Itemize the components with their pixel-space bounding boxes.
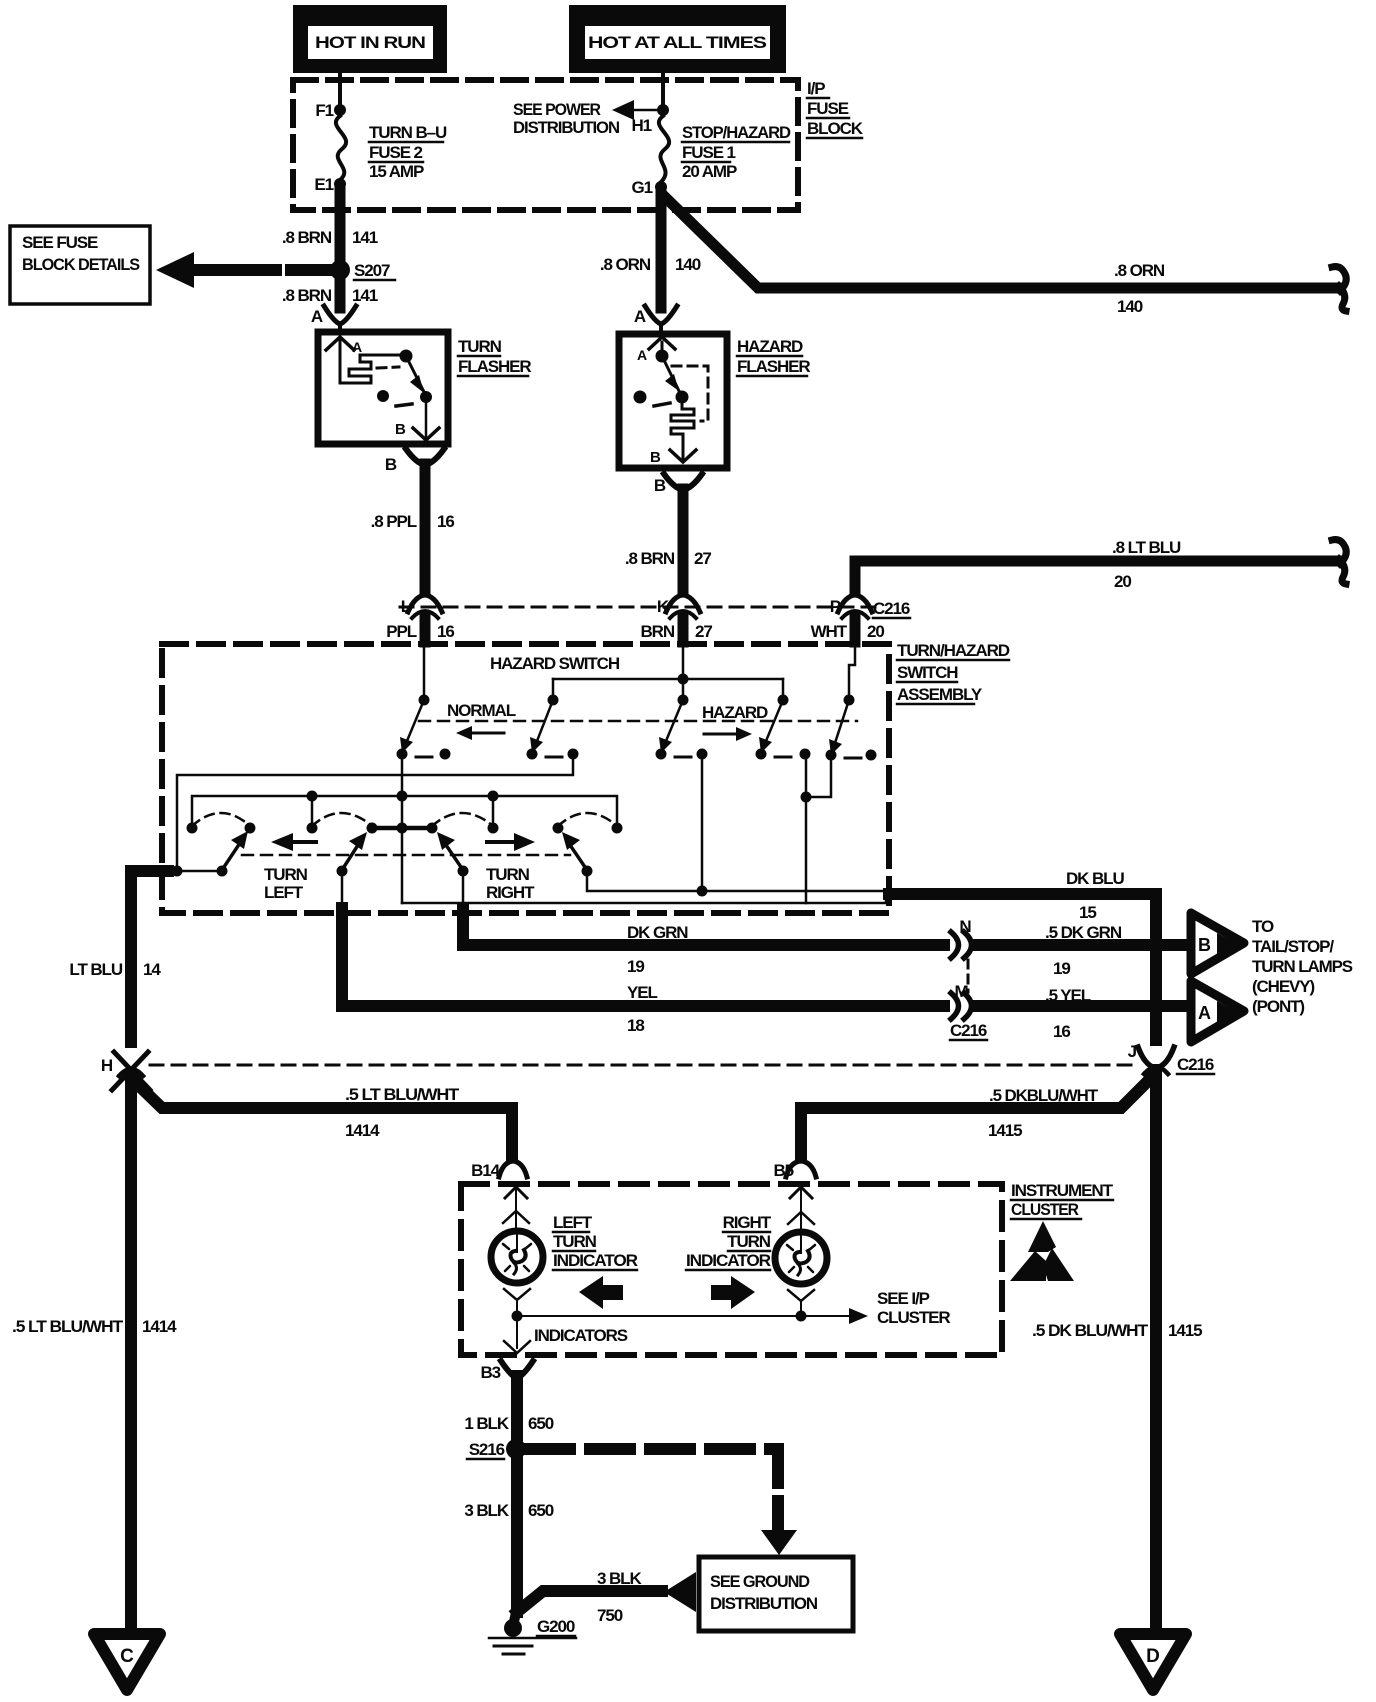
svg-text:SWITCH: SWITCH (897, 663, 958, 682)
wire YEL 18 left segment (342, 871, 950, 1035)
connector M (950, 982, 978, 1019)
svg-text:750: 750 (597, 1606, 623, 1625)
splice S207 (330, 260, 350, 280)
svg-text:SEE FUSE: SEE FUSE (22, 233, 98, 252)
right indicator thick arrow (711, 1276, 755, 1309)
svg-text:.5 LT BLU/WHT: .5 LT BLU/WHT (12, 1317, 124, 1336)
hazard switch blade 5 (829, 700, 849, 755)
svg-text:141: 141 (352, 286, 378, 305)
svg-text:FLASHER: FLASHER (458, 357, 531, 376)
svg-text:C216: C216 (873, 599, 910, 618)
bus drop left (552, 679, 555, 697)
wire .5 LT BLU/WHT 1414 to C (12, 1078, 177, 1630)
left indicator thick arrow (579, 1276, 623, 1309)
turn left thick arrow (284, 840, 316, 844)
connector L (401, 595, 442, 618)
turn blade 2 (342, 832, 367, 870)
svg-text:.5 YEL: .5 YEL (1045, 986, 1091, 1005)
svg-text:DK BLU: DK BLU (1066, 869, 1124, 888)
turn flasher box (318, 332, 448, 444)
label TURN FLASHER (458, 337, 531, 376)
svg-text:YEL: YEL (627, 983, 657, 1002)
dashed arc 4 (558, 813, 617, 826)
label RIGHT TURN INDICATOR (686, 1213, 772, 1270)
turn right arrow (487, 833, 535, 851)
svg-text:INDICATORS: INDICATORS (534, 1326, 628, 1345)
label TURN LEFT (264, 865, 308, 902)
svg-text:B: B (1198, 935, 1211, 955)
svg-text:SEE I/P: SEE I/P (877, 1289, 930, 1308)
dashed arrow wire to see fuse block details (156, 252, 330, 288)
wire .8 ORN 140 down from G1 (656, 193, 667, 308)
svg-text:B: B (385, 455, 397, 474)
svg-text:1414: 1414 (345, 1121, 380, 1140)
connector H (101, 1048, 150, 1090)
svg-text:1 BLK: 1 BLK (464, 1414, 509, 1433)
label C216 at J (1177, 1055, 1214, 1074)
svg-text:SEE POWER: SEE POWER (513, 100, 601, 119)
wire 3 BLK 650 (464, 1457, 553, 1612)
hazard switch blade 1 (400, 700, 424, 753)
svg-text:INDICATOR: INDICATOR (686, 1251, 771, 1270)
svg-text:16: 16 (437, 512, 454, 531)
svg-text:CLUSTER: CLUSTER (877, 1308, 950, 1327)
svg-text:S207: S207 (354, 261, 390, 280)
svg-text:BLOCK: BLOCK (807, 119, 864, 138)
rail junction dots (307, 791, 318, 802)
C216 dashed link between N and M (967, 960, 970, 992)
wire .5 DK GRN 19 right segment (976, 923, 1186, 978)
connector row C216 dashed line (400, 606, 875, 609)
svg-text:TURN B–U: TURN B–U (369, 123, 447, 142)
off-page triangle D (1120, 1634, 1186, 1690)
svg-text:CLUSTER: CLUSTER (1011, 1200, 1079, 1219)
svg-text:HAZARD SWITCH: HAZARD SWITCH (490, 654, 620, 673)
svg-text:FUSE 2: FUSE 2 (369, 143, 423, 162)
bus drop right (782, 679, 785, 697)
hazard flasher internals (634, 337, 709, 466)
svg-text:.8 ORN: .8 ORN (600, 255, 651, 274)
label LEFT TURN INDICATOR (553, 1213, 638, 1270)
dashed arc 3 (432, 813, 493, 826)
wire from HOT IN RUN to F1 (338, 73, 342, 106)
svg-text:16: 16 (1053, 1022, 1070, 1041)
turn switch top rail (192, 796, 617, 826)
power box HOT IN RUN (293, 5, 447, 73)
wire LT BLU 14 (69, 871, 168, 1050)
left turn indicator lamp (491, 1231, 543, 1283)
I/P fuse block dashed box (293, 80, 798, 210)
instrument cluster dashed box (461, 1184, 1002, 1355)
rail stub at 493 (492, 796, 495, 826)
svg-text:TAIL/STOP/: TAIL/STOP/ (1252, 937, 1334, 956)
fuse TURN B-U FUSE 2 15 AMP (336, 116, 346, 180)
svg-text:27: 27 (695, 622, 712, 641)
connector J (1128, 1042, 1174, 1074)
svg-text:A: A (311, 307, 323, 326)
svg-text:INDICATOR: INDICATOR (553, 1251, 638, 1270)
terminal F1 (334, 104, 346, 116)
wire WHT into contact (849, 642, 855, 697)
svg-text:HOT AT ALL TIMES: HOT AT ALL TIMES (588, 33, 767, 52)
svg-text:.5 DKBLU/WHT: .5 DKBLU/WHT (989, 1086, 1099, 1105)
wire from HOT AT ALL TIMES to H1 (661, 73, 665, 106)
dashed arc 1 (192, 813, 250, 826)
svg-text:.5 DK BLU/WHT: .5 DK BLU/WHT (1032, 1321, 1149, 1340)
svg-text:.5 LT BLU/WHT: .5 LT BLU/WHT (345, 1085, 460, 1104)
svg-text:DK GRN: DK GRN (627, 923, 688, 942)
svg-text:LT BLU: LT BLU (69, 960, 122, 979)
dashed arc 2 (312, 813, 372, 826)
svg-text:TURN LAMPS: TURN LAMPS (1252, 957, 1353, 976)
svg-text:ASSEMBLY: ASSEMBLY (897, 685, 983, 704)
hazard switch blade 2 (530, 700, 553, 753)
label TURN/HAZARD SWITCH ASSEMBLY (897, 641, 1010, 704)
svg-text:E1: E1 (314, 175, 333, 194)
connector P (830, 595, 872, 618)
fuse STOP/HAZARD FUSE 1 20 AMP (659, 116, 669, 182)
svg-text:650: 650 (528, 1501, 554, 1520)
wire .5 LT BLU/WHT 1414 to B14 (131, 1078, 512, 1157)
arrow into see ground distribution box (761, 1530, 797, 1555)
wire DK GRN 19 left segment (463, 871, 950, 976)
hazard detent dashed line (419, 720, 857, 723)
svg-text:H1: H1 (631, 116, 651, 135)
svg-text:.8 LT BLU: .8 LT BLU (1112, 538, 1181, 557)
svg-text:TO: TO (1252, 917, 1274, 936)
hook end of .8 ORN wire (1332, 267, 1346, 311)
hazard feed column left (701, 754, 704, 891)
svg-text:BLOCK DETAILS: BLOCK DETAILS (22, 255, 140, 274)
note box SEE GROUND DISTRIBUTION (699, 1557, 853, 1631)
svg-text:3 BLK: 3 BLK (464, 1501, 509, 1520)
svg-text:.8 PPL: .8 PPL (371, 512, 417, 531)
terminal E1 (334, 178, 346, 190)
svg-text:C216: C216 (1177, 1055, 1214, 1074)
note box SEE FUSE BLOCK DETAILS (10, 226, 150, 304)
power box HOT AT ALL TIMES (569, 5, 786, 73)
svg-text:FUSE 1: FUSE 1 (682, 143, 736, 162)
svg-text:D: D (1146, 1646, 1160, 1667)
off-page triangle C (94, 1634, 160, 1690)
svg-text:WHT: WHT (811, 622, 848, 641)
svg-text:HOT IN RUN: HOT IN RUN (315, 33, 426, 52)
wire .5 YEL 16 right segment (976, 986, 1186, 1041)
wire stub PPL 16 into switch box (420, 617, 431, 642)
connector B of turn flasher (385, 449, 444, 474)
svg-text:19: 19 (627, 957, 644, 976)
svg-text:TURN: TURN (458, 337, 502, 356)
svg-text:J: J (1128, 1042, 1137, 1061)
lamp bottom chevrons (504, 1289, 530, 1300)
svg-text:C216: C216 (950, 1021, 987, 1040)
svg-text:C: C (120, 1646, 134, 1667)
turn flasher internals (326, 337, 439, 440)
connector B of hazard flasher (654, 474, 702, 495)
svg-text:RIGHT: RIGHT (723, 1213, 772, 1232)
wire stub WHT 20 into switch box (850, 617, 861, 642)
feed line from normal contact (177, 758, 573, 866)
turn blade 3 (437, 832, 463, 870)
terminal H1 (657, 104, 669, 116)
svg-text:A: A (352, 339, 362, 355)
svg-text:1415: 1415 (1168, 1321, 1202, 1340)
svg-text:A: A (634, 307, 646, 326)
rail stub at 312 (311, 796, 314, 826)
svg-text:18: 18 (627, 1016, 644, 1035)
connector K (657, 595, 700, 618)
svg-text:(CHEVY): (CHEVY) (1252, 977, 1314, 996)
C216 long dashed line (150, 1064, 1140, 1067)
connector N (950, 917, 978, 958)
label INSTRUMENT CLUSTER (1011, 1181, 1114, 1219)
hazard flasher box (619, 334, 727, 468)
wire BRN into bus (682, 642, 685, 697)
turn blade 4 (562, 832, 587, 870)
svg-text:A: A (1198, 1003, 1211, 1023)
svg-text:TURN: TURN (727, 1232, 771, 1251)
wire .5 DKBLU/WHT 1415 to B5 (801, 1077, 1152, 1157)
svg-text:HAZARD: HAZARD (702, 703, 768, 722)
svg-text:DISTRIBUTION: DISTRIBUTION (513, 118, 620, 137)
label C216 at connector row (873, 599, 910, 618)
svg-text:RIGHT: RIGHT (486, 883, 535, 902)
wire 1 BLK 650 (464, 1376, 553, 1441)
connector B3 (480, 1361, 533, 1382)
off-page triangle B (1191, 913, 1244, 974)
svg-text:FUSE: FUSE (807, 99, 849, 118)
svg-text:LEFT: LEFT (264, 883, 304, 902)
svg-text:DISTRIBUTION: DISTRIBUTION (710, 1594, 818, 1613)
output line to DK BLU upper (587, 871, 888, 891)
svg-text:NORMAL: NORMAL (447, 701, 516, 720)
center bar (372, 826, 431, 831)
connector A of hazard flasher (634, 306, 677, 332)
svg-text:TURN: TURN (486, 865, 530, 884)
turn/hazard switch assembly dashed box (162, 644, 889, 913)
turn lower pivots (172, 866, 183, 877)
splice S216 (467, 1439, 526, 1459)
center column (401, 754, 404, 903)
svg-text:INSTRUMENT: INSTRUMENT (1011, 1181, 1114, 1200)
wire .8 BRN 141 lower segment (335, 274, 346, 308)
svg-text:.5 DK GRN: .5 DK GRN (1045, 923, 1122, 942)
svg-text:20: 20 (867, 622, 884, 641)
svg-text:20: 20 (1114, 572, 1131, 591)
right lamp feed with arrow (788, 1187, 814, 1232)
wire DK BLU 15 (889, 869, 1156, 1048)
svg-text:H: H (101, 1056, 113, 1075)
svg-text:TURN: TURN (553, 1232, 597, 1251)
svg-text:TURN: TURN (264, 865, 308, 884)
hazard switch blade 4 (759, 700, 783, 753)
label I/P FUSE BLOCK (807, 79, 864, 138)
arrow into ground distribution box left (664, 1572, 696, 1612)
wire .8 BRN 141 upper segment (335, 190, 346, 266)
connector B14 (471, 1161, 527, 1180)
label TURN RIGHT (486, 865, 535, 902)
svg-text:B: B (395, 421, 406, 438)
turn detent dashed line (242, 854, 570, 857)
svg-text:(PONT): (PONT) (1252, 997, 1304, 1016)
svg-text:.8 BRN: .8 BRN (625, 549, 675, 568)
turn blade 1 (222, 831, 248, 870)
wire .8 BRN 27 (678, 489, 689, 591)
svg-text:3 BLK: 3 BLK (597, 1569, 642, 1588)
svg-text:G200: G200 (537, 1617, 575, 1636)
turn switch contact dots row (187, 823, 198, 834)
svg-text:14: 14 (143, 960, 161, 979)
svg-text:G1: G1 (632, 178, 653, 197)
svg-text:.8 ORN: .8 ORN (1114, 261, 1165, 280)
svg-text:1415: 1415 (988, 1121, 1022, 1140)
svg-text:S216: S216 (469, 1440, 505, 1459)
svg-text:.8 BRN: .8 BRN (282, 286, 332, 305)
label TO TAIL/STOP/TURN LAMPS (1252, 917, 1353, 1016)
svg-text:15 AMP: 15 AMP (369, 162, 424, 181)
svg-text:SEE GROUND: SEE GROUND (710, 1572, 810, 1591)
see I/P cluster arrow (801, 1289, 950, 1327)
svg-text:HAZARD: HAZARD (737, 337, 803, 356)
hazard switch blade 3 (659, 700, 683, 753)
dashed wire from S216 to ground distribution (530, 1449, 778, 1526)
ESD symbol (1010, 1221, 1074, 1281)
label NORMAL with arrow (447, 701, 516, 740)
off-page triangle A (1191, 981, 1244, 1042)
wire 3 BLK 750 (517, 1569, 662, 1625)
svg-text:.8 BRN: .8 BRN (282, 228, 332, 247)
svg-text:B: B (650, 449, 661, 466)
svg-text:FLASHER: FLASHER (737, 357, 810, 376)
ground G200 (489, 1608, 576, 1654)
svg-text:140: 140 (1117, 297, 1143, 316)
svg-text:650: 650 (528, 1414, 554, 1433)
hazard feed column right with step (806, 755, 831, 797)
wire .8 LT BLU 20 (855, 538, 1340, 591)
wire .8 ORN 140 branch to right (664, 196, 1340, 316)
hazard switch lower contacts (397, 749, 408, 760)
svg-text:B14: B14 (471, 1161, 501, 1180)
see power distribution arrow (513, 100, 657, 137)
wire .8 PPL 16 (420, 464, 431, 591)
svg-text:STOP/HAZARD: STOP/HAZARD (682, 123, 791, 142)
right turn indicator lamp (775, 1232, 827, 1284)
connector B5 (773, 1161, 816, 1180)
hazard switch bus line (553, 678, 783, 681)
indicators output arrow to B3 (504, 1316, 530, 1353)
connector A of turn flasher (311, 306, 356, 331)
indicators common line (512, 1300, 807, 1322)
svg-text:16: 16 (437, 622, 454, 641)
svg-text:141: 141 (352, 228, 378, 247)
wire PPL into contact (423, 642, 426, 697)
hook end of .8 LT BLU wire (1332, 540, 1346, 584)
svg-text:19: 19 (1053, 959, 1070, 978)
output line to DK BLU lower (402, 893, 886, 903)
svg-text:A: A (637, 347, 647, 363)
terminal G1 (655, 181, 667, 193)
svg-text:15: 15 (1079, 903, 1096, 922)
svg-text:140: 140 (675, 255, 701, 274)
svg-text:B3: B3 (480, 1363, 500, 1382)
svg-text:BRN: BRN (640, 622, 674, 641)
left lamp feed with arrow (503, 1187, 529, 1231)
svg-text:I/P: I/P (807, 79, 825, 98)
hazard switch upper contacts (419, 695, 430, 706)
svg-text:27: 27 (694, 549, 711, 568)
wire .5 DK BLU/WHT 1415 to D (1032, 1070, 1202, 1630)
svg-text:1414: 1414 (142, 1317, 177, 1336)
svg-text:20 AMP: 20 AMP (682, 162, 737, 181)
label HAZARD FLASHER (737, 337, 810, 376)
svg-text:LEFT: LEFT (553, 1213, 593, 1232)
label HAZARD with arrow (702, 703, 768, 741)
wire stub BRN 27 into switch box (678, 617, 689, 642)
svg-text:TURN/HAZARD: TURN/HAZARD (897, 641, 1010, 660)
label C216 under M (950, 1021, 987, 1040)
svg-text:F1: F1 (315, 101, 333, 120)
svg-text:PPL: PPL (386, 622, 416, 641)
